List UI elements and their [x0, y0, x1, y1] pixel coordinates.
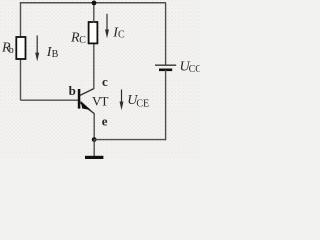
current arrow IB: [35, 36, 39, 62]
wire collector: [93, 43, 95, 89]
svg-text:C: C: [118, 30, 125, 41]
svg-text:VT: VT: [92, 94, 108, 109]
svg-text:e: e: [102, 113, 108, 128]
transistor VT: [78, 89, 94, 114]
wire base: [21, 99, 79, 101]
junction dot top: [92, 1, 97, 6]
svg-text:CC: CC: [189, 64, 200, 75]
wire right branch lower: [165, 70, 167, 141]
voltage arrow UCE: [120, 90, 124, 111]
wire left branch: [20, 3, 22, 100]
resistor RC: [89, 22, 98, 43]
resistor Rb: [16, 37, 25, 59]
svg-text:b: b: [69, 83, 76, 98]
battery UCC: [155, 65, 176, 70]
ground: [85, 156, 103, 159]
current arrow IC: [105, 14, 109, 38]
junction dot emitter: [92, 137, 97, 142]
svg-text:c: c: [102, 74, 108, 89]
wire right branch upper: [165, 3, 167, 65]
wire emitter: [93, 113, 95, 140]
svg-text:CE: CE: [136, 98, 149, 109]
wire bottom bus: [94, 139, 166, 141]
svg-text:b: b: [9, 45, 14, 56]
wire RC top: [93, 3, 95, 23]
svg-text:C: C: [79, 35, 86, 46]
wire ground lead: [93, 140, 95, 156]
svg-text:B: B: [52, 49, 59, 60]
wire top bus: [20, 2, 166, 4]
